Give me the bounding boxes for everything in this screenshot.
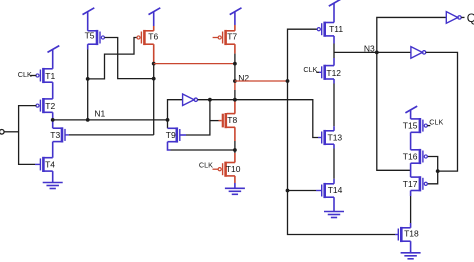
svg-text:T1: T1 <box>45 71 55 81</box>
transistor T16 <box>411 149 428 164</box>
wire T2 gate to D line <box>19 106 37 165</box>
svg-text:T14: T14 <box>328 185 343 195</box>
wire N3 to inverter 3 input <box>377 51 411 53</box>
transistor T7 <box>218 30 235 45</box>
junction N1 / inverter input / T9 drain <box>166 118 170 122</box>
svg-text:T3: T3 <box>50 130 60 140</box>
svg-text:Q: Q <box>467 11 474 25</box>
transistor T5 <box>88 30 105 45</box>
wire T16 drain to T17 source <box>410 163 412 177</box>
wire T12 drain to T13 source <box>333 79 335 84</box>
wire T5 drain down to N1 <box>87 44 89 49</box>
wire D to gate line <box>4 131 18 133</box>
svg-text:CLK: CLK <box>18 70 32 79</box>
svg-text:T13: T13 <box>328 132 343 142</box>
power VDD above T6 <box>149 8 161 26</box>
wire T1 drain to T2 source <box>52 82 54 99</box>
wire N3 up to inverter 2 <box>377 17 447 52</box>
wire T11 drain to T12 source <box>333 36 335 44</box>
wire T7 drain down through N2 <box>234 44 236 53</box>
junction N3 <box>375 51 379 55</box>
svg-text:T7: T7 <box>227 32 237 42</box>
transistor T4 <box>40 157 52 172</box>
junction inverter output line / T8 source column <box>233 98 237 102</box>
transistor T9 <box>168 127 180 142</box>
transistor T14 <box>322 183 334 198</box>
transistor T10 <box>218 162 235 177</box>
wire N2/T11 gate loop down to T18 gate <box>288 29 396 234</box>
unconnected T7 gate stub <box>213 37 219 39</box>
power VDD above T15 <box>405 106 417 119</box>
transistor T13 <box>322 130 334 145</box>
wire T15 drain to T16 source <box>410 132 412 150</box>
ground below T18 <box>401 241 421 259</box>
junction T2/N1 <box>51 118 55 122</box>
svg-text:T15: T15 <box>403 121 418 131</box>
junction T16/T17 gate node <box>436 169 440 173</box>
node N2 <box>233 79 237 83</box>
junction T8/T9/T10 node <box>233 148 237 152</box>
transistor T11 <box>317 22 334 37</box>
svg-text:T9: T9 <box>166 130 176 140</box>
node N1 wire <box>53 119 168 121</box>
transistor T2 <box>36 98 53 113</box>
inverter U1 <box>183 94 198 106</box>
transistor T1 <box>36 68 53 83</box>
svg-text:T12: T12 <box>326 68 341 78</box>
junction loop / T14 gate <box>286 189 290 193</box>
wire inverter output down to T9 gate <box>186 100 210 135</box>
wire T3 source to T4 drain <box>52 142 54 158</box>
wire T17 drain down to T18 source <box>410 191 412 197</box>
svg-text:CLK: CLK <box>303 65 317 74</box>
svg-text:T11: T11 <box>329 24 343 34</box>
junction N2 line / T11 gate column <box>286 79 290 83</box>
wire N1 to inverter 1 input <box>168 100 183 129</box>
svg-text:N1: N1 <box>94 109 105 119</box>
inverter U3 <box>411 47 426 59</box>
wire inverter 3 output to T16/T17 gates <box>426 52 458 171</box>
transistor T6 <box>137 30 154 45</box>
wire T6 drain to T7 drain (red rail) <box>154 63 235 65</box>
wire inverter 2 output to Q pin <box>461 16 464 18</box>
node N3 wire <box>334 51 377 53</box>
pin D input <box>0 130 4 135</box>
wire T13 drain to T14 source <box>333 144 335 148</box>
junction T5 line / N1 <box>86 118 90 122</box>
svg-text:CLK: CLK <box>199 160 213 169</box>
svg-text:T18: T18 <box>404 229 419 239</box>
svg-text:T17: T17 <box>403 179 418 189</box>
svg-text:T10: T10 <box>226 164 241 174</box>
junction T6 drain / T5 gate wire <box>152 77 156 81</box>
wire T8 drain down to T10 <box>234 127 236 141</box>
svg-text:T2: T2 <box>45 101 55 111</box>
wire T9 source to T10 drain node <box>168 142 171 150</box>
transistor T17 <box>411 176 428 191</box>
wire N3 down to T16/T17 midpoint <box>377 52 411 170</box>
transistor T3 <box>53 127 65 142</box>
junction T5 drain / T6 gate wire <box>86 77 90 81</box>
wire N2 to T11 gate line (red) <box>235 80 288 82</box>
wire T8 gate stub <box>210 120 219 122</box>
ground below T4 <box>43 171 63 188</box>
transistor T18 <box>398 227 410 242</box>
transistor T12 <box>322 65 334 80</box>
svg-text:T6: T6 <box>148 31 158 41</box>
wire T6 drain down to T3 gate <box>153 44 155 63</box>
svg-text:CLK: CLK <box>429 118 443 127</box>
wire to T17 gate <box>427 171 437 184</box>
junction red rail / T7 column <box>233 62 237 66</box>
power VDD above T1 <box>48 46 60 69</box>
wire T5 gate to T6 drain <box>105 38 154 79</box>
svg-text:T5: T5 <box>85 31 95 41</box>
transistor T15 <box>411 118 428 133</box>
wire inverter 1 output to T13 gate <box>198 100 318 138</box>
wire T6 drain node to T3 gate <box>69 134 154 136</box>
wire T6 gate to T5 drain <box>88 38 137 79</box>
junction inverter output / T8-T9 gate line <box>208 98 212 102</box>
power VDD above T11 <box>329 0 341 23</box>
ground below T10 <box>234 176 236 183</box>
ground below T14 <box>324 197 344 217</box>
svg-text:T8: T8 <box>227 115 237 125</box>
svg-text:T4: T4 <box>45 159 55 169</box>
wire to T16 gate <box>427 157 437 172</box>
wire T2 drain to node N1 <box>52 112 54 128</box>
wire T14 gate <box>288 190 317 192</box>
transistor T8 <box>223 113 235 128</box>
svg-text:T16: T16 <box>403 152 418 162</box>
svg-text:N3: N3 <box>364 44 375 54</box>
inverter U2 to Q <box>446 12 461 24</box>
junction T6 drain / red rail <box>152 62 156 66</box>
power VDD above T5 <box>83 8 95 31</box>
power VDD above T7 <box>230 8 242 25</box>
pin CLK at T15 gate <box>427 125 430 127</box>
